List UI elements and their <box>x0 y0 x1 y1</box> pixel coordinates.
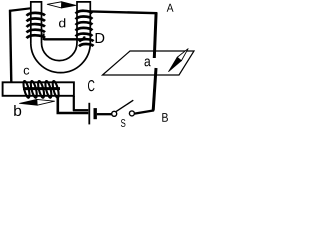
wire right vertical lower (board down to B corner) <box>153 68 156 111</box>
right leg coil winding <box>76 11 94 47</box>
wire left frame vertical <box>10 10 11 83</box>
label d <box>59 18 65 27</box>
compass needle b (black half) <box>20 99 38 105</box>
battery long plate <box>88 103 90 125</box>
solenoid C winding loops <box>22 81 60 99</box>
wire curl into right coil <box>81 36 85 39</box>
label c <box>24 68 30 75</box>
compass needle d (white half) <box>47 2 61 8</box>
switch S left contact <box>112 111 117 116</box>
wire switch to B corner <box>135 110 155 113</box>
left leg coil winding <box>27 13 45 38</box>
battery short thick plate <box>93 108 96 119</box>
wire between legs <box>44 38 83 40</box>
wire drop at bar right end <box>73 96 75 111</box>
label a <box>145 59 151 67</box>
label A <box>167 4 174 12</box>
compass needle d (black half) <box>62 2 76 8</box>
label B <box>162 113 168 122</box>
electromagnet U-core outer arc <box>31 43 91 73</box>
wire right vertical upper (A side, down to board) <box>154 13 156 58</box>
electromagnet right leg <box>77 2 90 44</box>
label S <box>121 119 126 127</box>
compass needle on board (white half) <box>177 49 188 61</box>
compass needle on board (black half) <box>169 57 182 71</box>
wire top left (corner to magnet) <box>9 8 30 11</box>
wire bar end to battery <box>73 109 88 111</box>
wire battery to switch <box>97 113 112 115</box>
wire down from coil C <box>56 95 59 113</box>
wire drop from left coil <box>43 34 45 41</box>
wire top right (magnet to A corner) <box>91 11 158 13</box>
label C <box>88 80 95 91</box>
board a (card pierced by vertical wire) <box>103 51 195 75</box>
wire from coil C to battery <box>57 112 89 115</box>
label D <box>96 33 105 43</box>
label b <box>14 105 21 116</box>
electromagnet left leg <box>31 2 42 44</box>
switch S right contact <box>129 111 134 116</box>
switch S lever <box>116 100 133 111</box>
solenoid C winding connector <box>23 87 60 90</box>
electromagnet U-core inner arc <box>42 43 78 61</box>
compass needle b (white half) <box>37 99 55 105</box>
solenoid C bar core <box>3 82 74 96</box>
